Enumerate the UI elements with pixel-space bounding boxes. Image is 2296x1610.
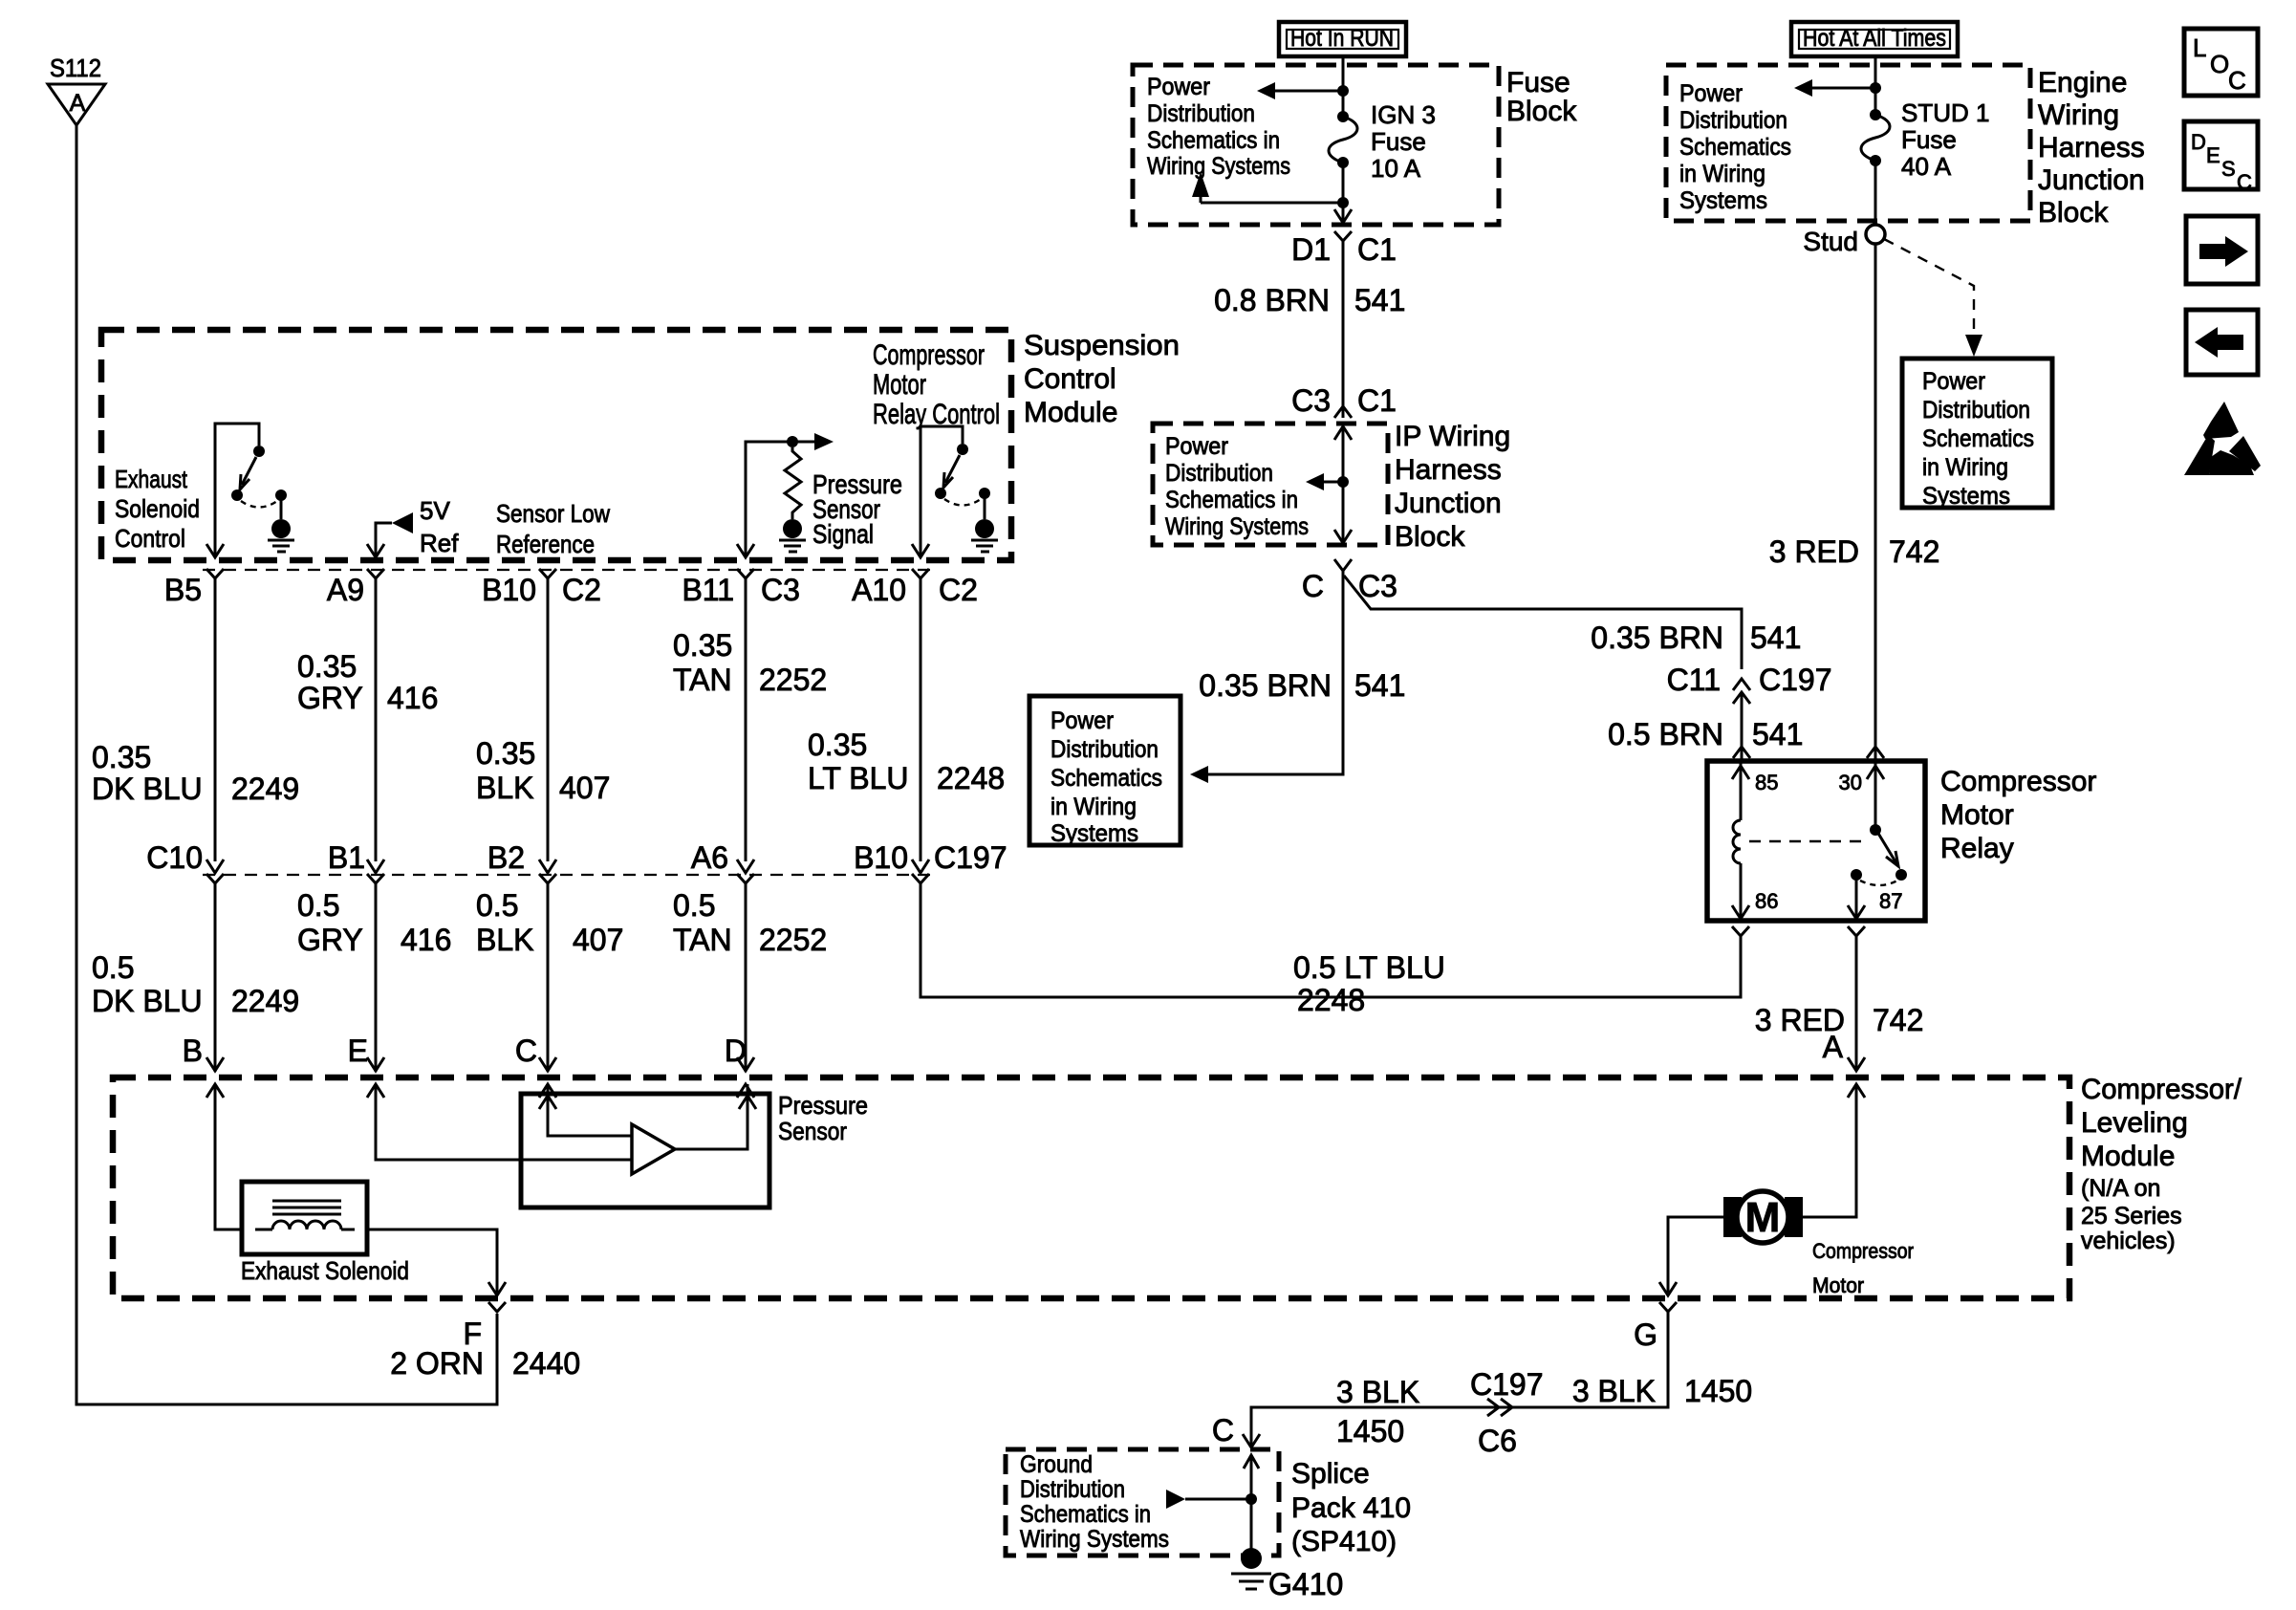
svg-text:A10: A10 — [852, 573, 906, 607]
wire fuse to stud — [1874, 161, 1877, 225]
svg-text:Stud: Stud — [1803, 227, 1858, 256]
svg-text:Solenoid: Solenoid — [115, 494, 200, 523]
wire label 0.35 LT BLU 2248 — [808, 728, 1005, 795]
svg-text:0.5: 0.5 — [673, 888, 715, 923]
svg-text:Relay Control: Relay Control — [873, 399, 1000, 430]
svg-text:0.35 BRN: 0.35 BRN — [1591, 620, 1723, 655]
svg-text:2 ORN: 2 ORN — [390, 1346, 484, 1381]
svg-text:B1: B1 — [328, 840, 365, 875]
stud terminal circle — [1866, 225, 1885, 244]
svg-text:0.35: 0.35 — [92, 740, 151, 774]
svg-text:Module: Module — [2081, 1141, 2175, 1172]
svg-text:Exhaust Solenoid: Exhaust Solenoid — [241, 1256, 409, 1285]
junction dot (IP block) — [1337, 476, 1349, 488]
svg-text:0.8 BRN: 0.8 BRN — [1214, 283, 1330, 317]
connector Y row1 A10/C2 — [912, 569, 929, 578]
svg-text:2252: 2252 — [759, 663, 827, 697]
wire from Hot In RUN into fuse block — [1342, 56, 1345, 113]
connector labels C197 / C6 — [1470, 1367, 1544, 1458]
connector arrows+Y row2 B10/C197 — [912, 859, 929, 883]
compressor motor relay box — [1707, 761, 1925, 921]
junction dot (engine block top) — [1870, 82, 1881, 94]
inline connector C197/C6 on ground run — [1487, 1399, 1512, 1416]
svg-text:C: C — [1302, 569, 1324, 603]
connector Y below relay pin 87 — [1848, 926, 1865, 936]
svg-text:DK BLU: DK BLU — [92, 984, 203, 1018]
svg-text:C197: C197 — [1470, 1367, 1544, 1402]
DESC icon — [2184, 121, 2258, 194]
IP block internal text — [1165, 433, 1309, 540]
svg-text:Splice: Splice — [1291, 1458, 1370, 1490]
svg-text:B2: B2 — [487, 840, 525, 875]
svg-text:Distribution: Distribution — [1165, 460, 1273, 487]
relay pin 85 — [1732, 763, 1778, 820]
svg-text:742: 742 — [1873, 1003, 1923, 1037]
svg-text:Hot In RUN: Hot In RUN — [1290, 25, 1394, 52]
Hot At All Times box — [1791, 22, 1958, 56]
wire B1/E segment — [375, 883, 378, 1072]
wire C into pressure sensor — [547, 1084, 550, 1092]
svg-text:Power: Power — [1679, 80, 1743, 107]
svg-text:3 BLK: 3 BLK — [1572, 1374, 1656, 1408]
wire label 0.5 BLK 407 — [476, 888, 623, 957]
svg-text:541: 541 — [1752, 717, 1803, 751]
Fuse Block dashed box — [1133, 65, 1499, 225]
Power Distribution box (middle) — [1029, 696, 1180, 845]
pressure sensor signal pull-up resistor — [785, 447, 801, 519]
wire label 0.5 LT BLU 2248 — [1293, 950, 1445, 1017]
relay switch dashed throw arc — [1860, 881, 1897, 885]
svg-text:541: 541 — [1750, 620, 1801, 655]
svg-text:85: 85 — [1755, 771, 1778, 794]
connector Y row1 B5 — [206, 569, 224, 578]
svg-text:2440: 2440 — [512, 1346, 580, 1381]
wire from S112 to exhaust solenoid return (ground path) — [76, 125, 497, 1404]
wire exhaust solenoid to F pin — [367, 1229, 497, 1293]
svg-text:0.5: 0.5 — [92, 950, 134, 985]
svg-text:2252: 2252 — [759, 923, 827, 957]
fuse STUD 1 symbol — [1861, 109, 1890, 166]
svg-text:Exhaust: Exhaust — [115, 465, 188, 493]
wire C10/B segment — [214, 883, 217, 1072]
connector Y below relay pin 86 — [1732, 926, 1749, 936]
svg-text:C1: C1 — [1357, 383, 1397, 418]
svg-text:DK BLU: DK BLU — [92, 772, 203, 806]
svg-text:Wiring Systems: Wiring Systems — [1165, 513, 1309, 540]
wire label 0.5 GRY 416 — [297, 888, 451, 957]
connector Y row1 B10/C2 — [539, 569, 556, 578]
svg-text:0.35: 0.35 — [297, 649, 357, 684]
ground symbol (relay control) — [971, 519, 998, 552]
Compressor/Leveling Module label — [2081, 1074, 2242, 1254]
pressure sensor signal wire in SCM — [737, 433, 834, 557]
wire module pin A to motor — [1803, 1084, 1856, 1217]
svg-text:C2: C2 — [939, 573, 978, 607]
pin labels row 2 — [146, 840, 1007, 875]
svg-text:Leveling: Leveling — [2081, 1107, 2188, 1139]
wire B to exhaust solenoid — [215, 1084, 242, 1229]
connector labels C11 C197 — [1667, 663, 1832, 697]
svg-text:0.35: 0.35 — [808, 728, 867, 762]
svg-text:Distribution: Distribution — [1020, 1476, 1125, 1503]
arrow B5 to SCM edge — [206, 544, 224, 557]
svg-text:0.35: 0.35 — [673, 628, 732, 663]
svg-text:Ref: Ref — [420, 529, 459, 557]
svg-text:Reference: Reference — [496, 530, 595, 558]
svg-text:Motor: Motor — [1940, 799, 2014, 831]
wire label 3 BLK 1450 (right) — [1572, 1374, 1752, 1408]
svg-text:D1: D1 — [1291, 232, 1331, 267]
wire label 3 BLK 1450 (left of connector) — [1336, 1375, 1419, 1448]
wire C197 to 0.5 LT BLU run — [921, 883, 1741, 997]
wire B2/C segment — [547, 883, 550, 1072]
Compressor/Leveling Module dashed box — [113, 1077, 2069, 1298]
svg-text:GRY: GRY — [297, 923, 363, 957]
svg-text:O: O — [2210, 50, 2229, 78]
right box text — [1922, 368, 2034, 510]
svg-text:A6: A6 — [691, 840, 728, 875]
svg-text:C2: C2 — [562, 573, 601, 607]
Pressure Sensor Signal label — [812, 469, 902, 549]
wire label 3 RED 742 (upper) — [1769, 534, 1940, 569]
wire G ground run — [1251, 1312, 1668, 1447]
IGN 3 Fuse 10 A label — [1371, 100, 1436, 183]
wire 0.5 BRN to relay — [1741, 692, 1744, 761]
svg-text:30: 30 — [1839, 771, 1862, 794]
svg-text:Schematics in: Schematics in — [1020, 1501, 1151, 1528]
svg-text:3 BLK: 3 BLK — [1336, 1375, 1419, 1409]
wire label 0.35 DK BLU 2249 — [92, 740, 299, 806]
svg-text:2249: 2249 — [231, 772, 299, 806]
svg-text:0.5 BRN: 0.5 BRN — [1608, 717, 1723, 751]
svg-text:D: D — [725, 1033, 747, 1068]
svg-text:Ground: Ground — [1020, 1451, 1093, 1478]
wire label 0.35 GRY 416 — [297, 649, 438, 715]
wire B10-C2/B2 segment — [547, 578, 550, 861]
wire label 0.35 BRN 541 (right branch) — [1591, 620, 1801, 655]
svg-text:in Wiring: in Wiring — [1679, 161, 1765, 187]
svg-text:B11: B11 — [682, 573, 734, 607]
svg-text:TAN: TAN — [673, 663, 732, 697]
svg-text:C3: C3 — [1291, 383, 1331, 418]
wire A6/D segment — [745, 883, 747, 1072]
pressure sensor box — [521, 1094, 769, 1207]
module exit connector G — [1659, 1282, 1677, 1312]
svg-text:Power: Power — [1051, 707, 1114, 734]
back arrow icon — [2186, 310, 2258, 375]
svg-text:C: C — [2237, 170, 2252, 194]
svg-text:Control: Control — [1024, 363, 1116, 395]
LOC icon — [2184, 29, 2258, 96]
ESD warning triangle — [2184, 402, 2261, 475]
svg-text:C1: C1 — [1357, 232, 1397, 267]
wire relay 87 to module pin A — [1855, 936, 1858, 1071]
IP Wiring Harness Junction Block dashed box — [1153, 424, 1388, 545]
5V Ref source in SCM — [367, 512, 413, 557]
Fuse Block label — [1506, 67, 1577, 127]
connector arrows+Y row2 B2 — [539, 859, 556, 883]
svg-text:86: 86 — [1755, 889, 1778, 913]
relay switch contact dot (87 side) — [1851, 869, 1862, 881]
wire label 0.35 BRN 541 (left branch) — [1199, 668, 1405, 703]
wire label 0.8 BRN 541 — [1214, 283, 1405, 317]
svg-text:Compressor: Compressor — [873, 339, 985, 371]
relay linkage dashed line — [1749, 840, 1868, 842]
svg-text:C: C — [515, 1033, 537, 1068]
wire B5/C10 segment — [214, 578, 217, 861]
svg-text:C11: C11 — [1667, 663, 1721, 697]
svg-text:Power: Power — [1165, 433, 1228, 460]
svg-text:Schematics in: Schematics in — [1165, 487, 1298, 513]
Compressor Motor Relay Control label — [873, 339, 1000, 430]
svg-text:416: 416 — [401, 923, 451, 957]
fuse block internal text — [1147, 74, 1290, 180]
relay coil — [1733, 820, 1741, 863]
pin labels row 3 B E C D — [183, 1033, 747, 1068]
Sensor Low Reference label — [496, 499, 610, 558]
pin labels C C3 — [1302, 569, 1397, 603]
Compressor Motor Relay label — [1940, 766, 2096, 864]
wire label 0.35 TAN 2252 — [673, 628, 827, 697]
svg-text:C6: C6 — [1478, 1424, 1517, 1458]
svg-text:Schematics: Schematics — [1922, 425, 2034, 452]
wire B11-C3/A6 segment — [745, 578, 747, 861]
connector arrows+Y row2 B1 — [367, 859, 384, 883]
svg-text:Systems: Systems — [1922, 483, 2010, 510]
relay pin 30 — [1839, 763, 1884, 826]
compressor motor relay control switch in SCM — [912, 426, 990, 557]
svg-text:A: A — [70, 90, 86, 117]
Compressor Motor label — [1812, 1239, 1914, 1297]
wire C3 split: diagonal to relay branch — [1344, 576, 1742, 669]
Splice Pack 410 label — [1291, 1458, 1411, 1557]
svg-text:0.5 LT BLU: 0.5 LT BLU — [1293, 950, 1445, 985]
svg-text:A: A — [1823, 1030, 1844, 1064]
relay switch pivot dot — [1870, 824, 1881, 836]
wire from Hot At All Times — [1874, 56, 1877, 111]
svg-text:Control: Control — [115, 524, 185, 553]
svg-text:Fuse: Fuse — [1506, 67, 1570, 98]
svg-text:C3: C3 — [1358, 569, 1397, 603]
wire E to pressure sensor — [376, 1084, 521, 1160]
svg-text:40 A: 40 A — [1901, 152, 1952, 181]
svg-text:LT BLU: LT BLU — [808, 761, 909, 795]
svg-text:Motor: Motor — [873, 369, 926, 401]
svg-text:Pressure: Pressure — [778, 1091, 868, 1120]
ground symbol (pressure sensor signal) — [779, 519, 806, 552]
svg-text:L: L — [2193, 33, 2206, 62]
ground symbol (exhaust solenoid control) — [268, 519, 294, 552]
pressure sensor op-amp — [521, 1096, 756, 1174]
svg-text:Systems: Systems — [1051, 820, 1138, 847]
svg-text:Compressor: Compressor — [1940, 766, 2096, 797]
svg-text:GRY: GRY — [297, 681, 363, 715]
svg-text:C: C — [2228, 66, 2246, 95]
svg-text:Block: Block — [1506, 96, 1577, 127]
wire C3 down branch — [1208, 571, 1343, 774]
svg-text:S: S — [2221, 157, 2236, 181]
svg-text:Sensor: Sensor — [778, 1117, 847, 1145]
svg-text:(N/A on: (N/A on — [2081, 1175, 2160, 1202]
svg-text:2248: 2248 — [937, 761, 1005, 795]
svg-text:Signal: Signal — [812, 519, 874, 549]
svg-text:D: D — [2191, 130, 2206, 154]
module entry connector E — [367, 1057, 384, 1098]
wire label 3 RED 742 (lower) — [1755, 1003, 1924, 1037]
Ground Distribution text — [1020, 1451, 1169, 1553]
svg-text:Systems: Systems — [1679, 187, 1767, 214]
svg-text:TAN: TAN — [673, 923, 732, 957]
SCM connector dashed line (row 1) — [203, 569, 934, 571]
relay pin30 connector chevron — [1867, 747, 1884, 758]
pin labels D1 C1 — [1291, 232, 1397, 267]
svg-text:IP Wiring: IP Wiring — [1395, 421, 1510, 452]
svg-text:1450: 1450 — [1336, 1414, 1404, 1448]
forward arrow icon — [2186, 216, 2258, 284]
svg-text:G: G — [1634, 1317, 1657, 1352]
relay pin 87 — [1848, 875, 1902, 919]
svg-text:Sensor Low: Sensor Low — [496, 499, 610, 528]
svg-text:Distribution: Distribution — [1922, 397, 2030, 424]
wire motor to G pin — [1668, 1217, 1723, 1293]
svg-text:A9: A9 — [327, 573, 364, 607]
svg-text:Module: Module — [1024, 397, 1117, 428]
module entry connector C — [539, 1057, 556, 1098]
svg-text:541: 541 — [1354, 668, 1405, 703]
engine block internal text — [1679, 80, 1791, 214]
exhaust solenoid control switch in SCM — [215, 424, 287, 555]
svg-text:Hot At All Times: Hot At All Times — [1803, 25, 1946, 52]
svg-text:C: C — [1212, 1413, 1234, 1447]
module entry connector B — [206, 1057, 224, 1098]
svg-text:10 A: 10 A — [1371, 154, 1421, 183]
Pressure Sensor label — [778, 1091, 868, 1145]
wire through IP block — [1334, 426, 1352, 543]
relay pin 86 — [1732, 863, 1778, 919]
fuse IGN 3 symbol — [1329, 111, 1357, 168]
svg-text:in Wiring: in Wiring — [1051, 794, 1137, 820]
svg-text:C10: C10 — [146, 840, 203, 875]
Suspension Control Module dashed box — [101, 330, 1011, 560]
svg-text:vehicles): vehicles) — [2081, 1228, 2176, 1254]
arrow into power distribution box (middle) — [1190, 766, 1208, 783]
power distribution up arrow (fuse block) — [1192, 172, 1343, 203]
wire D into pressure sensor — [747, 1084, 749, 1092]
svg-text:G410: G410 — [1268, 1567, 1343, 1601]
Ground Distribution dashed box — [1006, 1449, 1279, 1556]
svg-text:STUD 1: STUD 1 — [1901, 98, 1989, 127]
svg-text:Engine: Engine — [2038, 67, 2127, 98]
connector arrows+Y row2 A6 — [737, 859, 754, 883]
IP block label — [1395, 421, 1510, 553]
wire fuse to block bottom — [1342, 163, 1345, 221]
svg-text:Power: Power — [1922, 368, 1985, 395]
svg-text:Compressor: Compressor — [1812, 1239, 1914, 1263]
svg-text:BLK: BLK — [476, 923, 533, 957]
svg-text:Block: Block — [1395, 521, 1465, 553]
svg-text:Distribution: Distribution — [1051, 736, 1159, 763]
Hot In RUN box — [1279, 22, 1406, 56]
svg-text:0.5: 0.5 — [476, 888, 518, 923]
svg-text:0.5: 0.5 — [297, 888, 339, 923]
wire A9/B1 segment — [375, 578, 378, 861]
wire 541 fuse block to IP junction block — [1342, 241, 1345, 418]
svg-text:Schematics in: Schematics in — [1147, 127, 1280, 154]
svg-text:Wiring: Wiring — [2038, 99, 2119, 131]
ground distribution reference arrow — [1166, 1490, 1257, 1509]
Engine Wiring Harness Junction Block dashed box — [1666, 65, 2030, 221]
compressor motor M — [1723, 1191, 1803, 1243]
STUD 1 Fuse 40 A label — [1901, 98, 1989, 181]
svg-text:Harness: Harness — [2038, 132, 2145, 163]
svg-text:2249: 2249 — [231, 984, 299, 1018]
svg-text:C197: C197 — [1759, 663, 1832, 697]
svg-text:Schematics: Schematics — [1051, 765, 1162, 792]
svg-text:2248: 2248 — [1297, 983, 1365, 1017]
svg-text:0.35: 0.35 — [476, 736, 535, 771]
power distribution left arrow (engine block) — [1794, 79, 1875, 97]
svg-text:87: 87 — [1879, 889, 1902, 913]
svg-text:Schematics: Schematics — [1679, 134, 1791, 161]
svg-text:E: E — [2206, 143, 2220, 167]
wire label 0.35 BLK 407 — [476, 736, 610, 805]
wire into splice pack ground — [1250, 1455, 1253, 1551]
inline connector C11/C197 — [1733, 679, 1750, 704]
svg-text:E: E — [348, 1033, 368, 1068]
Engine block label — [2038, 67, 2145, 228]
junction dot (fuse block bottom) — [1337, 197, 1349, 208]
svg-text:0.35 BRN: 0.35 BRN — [1199, 668, 1332, 703]
module entry connector D — [737, 1057, 754, 1098]
svg-text:Wiring Systems: Wiring Systems — [1020, 1526, 1169, 1553]
svg-text:B10: B10 — [482, 573, 536, 607]
svg-text:C3: C3 — [761, 573, 800, 607]
module entry connector A — [1848, 1057, 1865, 1098]
junction dot (fuse block top) — [1337, 85, 1349, 97]
wire A10-C2/B10-C197 segment — [920, 578, 922, 861]
power distribution left arrow (IP block) — [1306, 473, 1343, 490]
module exit connector F — [488, 1282, 506, 1312]
svg-text:Suspension: Suspension — [1024, 330, 1180, 361]
connector Y C/C3 — [1334, 559, 1352, 571]
wire label 0.5 BRN 541 — [1608, 717, 1803, 751]
svg-text:in Wiring: in Wiring — [1922, 454, 2008, 481]
svg-text:Power: Power — [1147, 74, 1210, 100]
relay switch arm — [1877, 832, 1898, 866]
svg-text:Junction: Junction — [1395, 488, 1502, 519]
arrow D1 to fuse block edge — [1334, 209, 1352, 223]
svg-text:1450: 1450 — [1684, 1374, 1752, 1408]
svg-text:416: 416 — [387, 681, 438, 715]
relay coil feed connector chevron — [1733, 747, 1750, 758]
svg-text:BLK: BLK — [476, 771, 533, 805]
svg-text:Compressor/: Compressor/ — [2081, 1074, 2242, 1105]
svg-text:(SP410): (SP410) — [1291, 1526, 1397, 1557]
svg-text:Fuse: Fuse — [1901, 125, 1957, 154]
splice pack entry connector C — [1243, 1434, 1260, 1469]
Power Distribution box (right) — [1902, 359, 2052, 508]
Exhaust Solenoid Control label — [115, 465, 200, 553]
connector chevron C3/C1 — [1334, 406, 1352, 418]
svg-text:407: 407 — [559, 771, 610, 805]
connector arrows+Y row2 C10 — [206, 859, 224, 883]
wire label 0.5 DK BLU 2249 — [92, 950, 299, 1018]
svg-text:B: B — [183, 1033, 203, 1068]
wire label 0.5 TAN 2252 — [673, 888, 827, 957]
svg-text:Distribution: Distribution — [1679, 107, 1787, 134]
wire label 2 ORN 2440 — [390, 1346, 580, 1381]
svg-text:Motor: Motor — [1812, 1273, 1864, 1297]
